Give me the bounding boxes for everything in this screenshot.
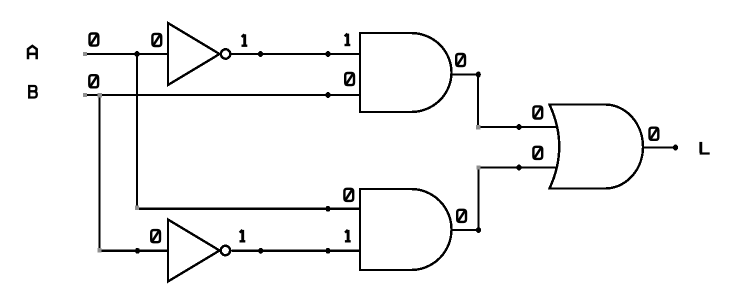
wire: input B horizontal segment to AND U3 input 2 bbox=[85, 94, 361, 96]
value label 0 at input A start bbox=[90, 34, 99, 46]
junction dot: on OR U5 input 1 wire bbox=[517, 124, 522, 130]
value label 0 at OR U5 output bbox=[650, 128, 659, 140]
NOT gate U1 bubble bbox=[221, 49, 230, 58]
input label A bbox=[28, 46, 37, 59]
junction dot: before AND U3 input 2 on B wire bbox=[326, 92, 331, 98]
junction dot: on NOT U2 input wire bbox=[135, 248, 140, 254]
junction dot: before AND U4 input 1 bbox=[326, 206, 331, 212]
wire: NOT U2 output to AND U4 input 2 bbox=[232, 250, 361, 252]
endpoint marker: corner of A branch wire (gray) bbox=[135, 206, 139, 210]
value label 0 at OR U5 input 1 bbox=[533, 106, 542, 118]
junction dot: on OR U5 input 2 wire bbox=[517, 165, 522, 171]
wire: AND U3 output vertical down bbox=[477, 75, 479, 128]
wire: AND U4 output vertical up bbox=[477, 168, 479, 231]
output label L bbox=[700, 142, 710, 154]
value label 1 at NOT U2 output bbox=[240, 230, 246, 241]
endpoint marker: input B start (gray) bbox=[83, 93, 87, 97]
wire: branch of B, horizontal to NOT U2 input bbox=[100, 250, 169, 252]
OR gate U5 body bbox=[550, 105, 644, 189]
AND gate U3 (top) body bbox=[360, 33, 452, 112]
endpoint marker: corner of AND U4 to OR wire (gray) bbox=[476, 165, 480, 169]
wire: horizontal into OR U5 input 2 bbox=[479, 166, 558, 168]
wire: AND U3 output stub bbox=[450, 73, 478, 75]
junction dot: AND U3 output corner bbox=[476, 72, 481, 78]
wire: horizontal into OR U5 input 1 bbox=[478, 126, 558, 128]
NOT gate U2 bubble bbox=[221, 246, 230, 255]
NOT gate U2 (inverter, bottom) triangle bbox=[168, 220, 220, 282]
junction dot: on NOT U1 output wire bbox=[258, 51, 263, 57]
AND gate U4 (bottom) body bbox=[360, 189, 452, 270]
value label 0 at OR U5 input 2 bbox=[533, 147, 542, 159]
wire: AND U4 output stub bbox=[450, 229, 479, 231]
wire: input A horizontal segment bbox=[85, 53, 169, 55]
value label 0 at AND U3 output bbox=[456, 54, 465, 66]
junction dot: on NOT U2 output wire bbox=[258, 248, 263, 254]
endpoint marker: node B branch on B wire (gray) bbox=[98, 93, 102, 97]
wire: NOT U1 output to AND U3 input 1 bbox=[232, 53, 361, 55]
junction dot: before AND U3 input 1 bbox=[326, 51, 331, 57]
endpoint marker: corner of AND U3 to OR wire (gray) bbox=[476, 125, 481, 130]
value label 0 at input B start bbox=[89, 75, 98, 87]
wire: branch of A, vertical from node at x=137 down bbox=[136, 54, 138, 210]
value label 0 at NOT U2 input bbox=[151, 230, 160, 242]
wire: branch of A, horizontal to AND U4 input 1 bbox=[137, 208, 360, 210]
value label 1 at NOT U1 output bbox=[242, 34, 248, 45]
value label 1 at AND U4 input 2 bbox=[345, 230, 351, 241]
wire: branch of B, vertical from node at x=99.5 down bbox=[98, 95, 100, 252]
value label 0 at AND U3 input 2 bbox=[345, 73, 354, 85]
value label 0 at AND U4 input 1 bbox=[344, 189, 353, 201]
wire: OR U5 output to L bbox=[643, 146, 676, 148]
junction dot: before AND U4 input 2 bbox=[326, 248, 331, 254]
value label 1 at AND U3 input 1 bbox=[345, 34, 351, 45]
endpoint marker: corner of B branch wire (gray) bbox=[97, 248, 101, 252]
endpoint marker: input A start (gray) bbox=[83, 52, 87, 56]
value label 0 at AND U4 output bbox=[457, 210, 466, 222]
junction dot: node A branch on A wire bbox=[135, 51, 140, 57]
input label B bbox=[28, 86, 37, 98]
NOT gate U1 (inverter, top) triangle bbox=[168, 23, 220, 85]
junction dot: on output wire before L bbox=[673, 145, 678, 151]
value label 0 at NOT U1 input bbox=[152, 34, 161, 46]
junction dot: AND U4 output corner bbox=[476, 227, 481, 233]
